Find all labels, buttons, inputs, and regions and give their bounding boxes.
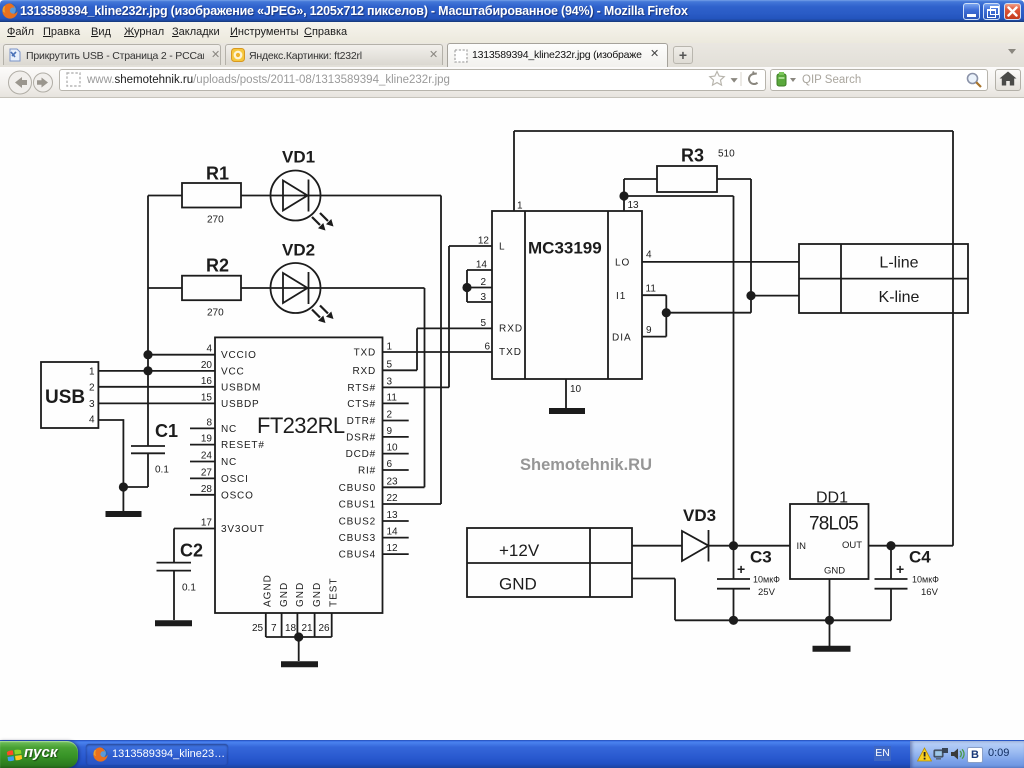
wire R1 row [148,195,441,197]
svg-text:FT232RL: FT232RL [257,413,345,438]
junction node DD1 gnd [825,616,834,625]
wire VCCIO [148,354,215,356]
svg-text:LO: LO [615,258,630,269]
pin stub DCD 10 [383,453,409,455]
FT232 left pin numbers [201,344,213,529]
pin stub CBUS3 [383,537,409,539]
pin stub OSCI 27 [190,477,215,479]
svg-text:NC: NC [221,457,237,468]
svg-text:1: 1 [517,201,523,212]
resistor R1 [182,183,241,208]
wire CBUS0 to VD2 [383,288,425,487]
wire MC33199 pin4 LO to L-line [642,261,799,263]
wire MC33199 pin1 [513,131,515,211]
svg-text:27: 27 [201,468,213,479]
junction node C3 bottom [729,616,738,625]
svg-text:10: 10 [570,384,582,395]
svg-text:17: 17 [201,518,213,529]
svg-text:2: 2 [89,383,95,394]
svg-text:TEST: TEST [329,577,340,607]
svg-text:2: 2 [387,410,393,421]
svg-text:R1: R1 [206,164,229,184]
svg-text:270: 270 [207,308,224,319]
capacitor C1 [123,446,165,487]
svg-text:5: 5 [480,318,486,329]
svg-text:13: 13 [628,200,640,211]
wire DD1 GND down [829,579,831,646]
svg-text:I1: I1 [616,291,626,302]
svg-text:21: 21 [302,623,314,634]
junction node pin13/R3 [619,191,628,200]
svg-text:11: 11 [387,393,398,404]
svg-text:1: 1 [89,367,95,378]
wire DD1 OUT [869,545,954,547]
svg-text:3: 3 [89,399,95,410]
wire bottom rail [675,619,891,621]
svg-text:25V: 25V [758,587,776,598]
wire pin13 node to line A [624,195,734,197]
pin stub RI 6 [383,469,409,471]
svg-text:VD2: VD2 [282,241,315,260]
svg-text:GND: GND [295,582,306,607]
svg-text:Shemotehnik.RU: Shemotehnik.RU [520,456,652,474]
svg-text:4: 4 [646,250,652,261]
svg-text:19: 19 [201,434,213,445]
svg-text:23: 23 [387,477,399,488]
svg-text:VCC: VCC [221,366,245,377]
svg-text:4: 4 [206,344,212,355]
window buttons [963,3,980,20]
svg-text:TXD: TXD [499,347,522,358]
svg-text:GND: GND [499,575,537,594]
junction node USB4 gnd [119,482,128,491]
pin stub NC 8 [190,427,215,429]
junction node VD3 out [729,541,738,550]
svg-text:RXD: RXD [499,324,523,335]
IC FT232RL box [215,337,383,613]
wire MC33199 pin10 [565,379,567,408]
svg-text:18: 18 [285,623,297,634]
pin stub OSCO 28 [190,494,215,496]
svg-text:11: 11 [646,284,657,295]
svg-text:14: 14 [476,260,488,271]
diode VD3 [682,530,709,562]
wire to I1/DIA node [666,312,751,314]
capacitor C2 [157,529,216,621]
svg-text:RESET#: RESET# [221,440,265,451]
junction node VCC [143,366,152,375]
pin stub DSR 9 [383,436,409,438]
svg-text:DSR#: DSR# [346,433,376,444]
wire RTS to MC33199 pin12 L [383,246,493,387]
svg-text:K-line: K-line [879,289,920,306]
svg-text:C2: C2 [180,541,203,561]
svg-text:6: 6 [387,459,393,470]
back button [7,69,57,96]
IC MC33199 box [492,211,642,379]
FT232 bottom pin names [263,574,340,607]
svg-text:CTS#: CTS# [347,399,376,410]
MC33199 pin names [499,242,632,359]
wire USB pin3 to USBDP [98,402,215,404]
wire R2 row [148,287,425,289]
junction node VCCIO [143,350,152,359]
wire USB pin1 to VCC [98,370,215,372]
ground under FT232 [281,661,318,667]
svg-text:78L05: 78L05 [809,514,858,535]
svg-text:16V: 16V [921,587,939,598]
wire RXD to MC33199 pin5 [383,328,493,370]
svg-text:24: 24 [201,451,213,462]
svg-text:20: 20 [201,360,213,371]
svg-text:RI#: RI# [358,466,376,477]
svg-text:5: 5 [387,360,393,371]
warning tray icon [917,747,932,762]
svg-text:USBDM: USBDM [221,382,261,393]
pin stub CTS 11 [383,402,409,404]
svg-text:+12V: +12V [499,541,540,560]
star, dropdown, reload inside urlbar right [708,70,764,88]
wire GND row to bottom rail [632,579,675,621]
wire +12V to VD3 [632,545,682,547]
svg-text:2: 2 [480,277,486,288]
svg-text:OUT: OUT [842,540,862,551]
firefox icon in titlebar [2,3,18,19]
wire USB pin4 down [98,420,123,511]
svg-text:0.1: 0.1 [182,583,196,594]
svg-text:10мкФ: 10мкФ [753,575,780,585]
B tray icon [967,747,983,763]
svg-text:DIA: DIA [612,333,632,344]
svg-text:C1: C1 [155,421,178,441]
wire MC33199 pin9 DIA [642,313,666,337]
wire R3 right down [717,179,751,313]
wire USB pin2 to USBDM [98,386,215,388]
svg-text:15: 15 [201,393,213,404]
wire VD3 to DD1 IN [709,545,791,547]
svg-text:R3: R3 [681,146,704,166]
wire TXD to MC33199 pin6 [383,351,493,353]
svg-text:GND: GND [279,582,290,607]
ground under MC33199 pin10 [549,408,585,414]
svg-text:CBUS2: CBUS2 [339,517,376,528]
svg-text:R2: R2 [206,256,229,276]
capacitor C4 [875,546,908,621]
junction node pins 14-2-3 [462,283,471,292]
network tray icon [933,747,949,762]
svg-text:TXD: TXD [354,348,376,359]
svg-text:3: 3 [387,377,393,388]
svg-text:OSCI: OSCI [221,474,249,485]
IC DD1 78L05 box [790,504,869,579]
wire MC33199 pins 14 2 3 bracket [467,270,492,302]
svg-text:MC33199: MC33199 [528,239,602,258]
FT232 right pin names [339,348,376,561]
svg-text:13: 13 [387,510,399,521]
svg-text:3: 3 [480,292,486,303]
svg-text:USB: USB [45,387,85,408]
wire left vertical rail [147,196,149,446]
svg-text:USBDP: USBDP [221,399,259,410]
svg-text:1: 1 [387,342,393,353]
junction node FT232 gnd [294,632,303,641]
wire MC33199 pin11 I1 [642,295,666,313]
svg-text:VD1: VD1 [282,148,315,167]
wire K-line [751,295,799,297]
svg-text:GND: GND [824,566,845,577]
svg-text:22: 22 [387,493,399,504]
svg-text:7: 7 [271,623,277,634]
svg-text:0.1: 0.1 [155,465,169,476]
svg-text:4: 4 [89,415,95,426]
junction node I1-DIA [662,308,671,317]
resistor R2 [182,276,241,301]
svg-text:C3: C3 [750,548,772,567]
capacitor C3 [717,546,750,621]
svg-text:25: 25 [252,623,264,634]
svg-text:L: L [499,242,506,253]
svg-text:DTR#: DTR# [347,416,376,427]
ground under USB/C1 [106,511,142,517]
svg-text:VD3: VD3 [683,506,716,525]
svg-text:CBUS3: CBUS3 [339,533,376,544]
ground under DD1 [813,646,851,652]
svg-text:14: 14 [387,527,399,538]
svg-text:RTS#: RTS# [347,383,376,394]
connector L-line K-line box [799,244,968,313]
svg-text:NC: NC [221,424,237,435]
ground under C2 [155,620,192,626]
wire +5V top rail [514,130,953,132]
svg-text:IN: IN [797,541,807,552]
LED VD2 [271,263,334,323]
svg-text:3V3OUT: 3V3OUT [221,524,265,535]
FT232 ground bus [266,613,332,661]
pin stub RESET 19 [190,444,215,446]
svg-text:GND: GND [312,582,323,607]
svg-text:CBUS4: CBUS4 [339,550,376,561]
svg-text:10мкФ: 10мкФ [912,575,939,585]
svg-text:12: 12 [387,543,399,554]
pin stub CBUS4 [383,553,409,555]
svg-text:C4: C4 [909,548,931,567]
svg-text:9: 9 [646,325,652,336]
svg-text:CBUS0: CBUS0 [339,483,376,494]
svg-text:CBUS1: CBUS1 [339,500,376,511]
resistor R3 [657,166,717,192]
connector +12V GND box [467,528,632,597]
svg-text:VCCIO: VCCIO [221,350,257,361]
junction node K-line [746,291,755,300]
junction node OUT/C4 [886,541,895,550]
svg-text:+: + [737,561,745,577]
svg-text:AGND: AGND [263,574,274,607]
svg-text:RXD: RXD [352,366,376,377]
FT232 left pin names [221,350,265,535]
wire right rail down [952,131,954,546]
svg-text:26: 26 [319,623,331,634]
wire line A down to VD3 node [733,196,735,546]
pin stub CBUS2 [383,520,409,522]
svg-text:6: 6 [484,342,490,353]
pin stub DTR 2 [383,420,409,422]
svg-text:L-line: L-line [879,255,918,272]
svg-text:28: 28 [201,484,213,495]
svg-text:16: 16 [201,376,213,387]
svg-text:DCD#: DCD# [346,449,376,460]
volume tray icon [950,746,966,762]
svg-text:270: 270 [207,215,224,226]
pin stub NC 24 [190,461,215,463]
wire R3 left to pin13 [624,179,657,211]
svg-text:12: 12 [478,236,490,247]
svg-text:10: 10 [387,443,399,454]
svg-text:DD1: DD1 [816,490,848,507]
svg-text:8: 8 [206,418,212,429]
svg-text:+: + [896,561,904,577]
wire CBUS1 to VD1 [383,196,442,505]
svg-text:9: 9 [387,426,393,437]
svg-text:OSCO: OSCO [221,490,254,501]
connector USB [41,362,98,428]
LED VD1 [271,171,334,231]
svg-text:510: 510 [718,149,735,160]
